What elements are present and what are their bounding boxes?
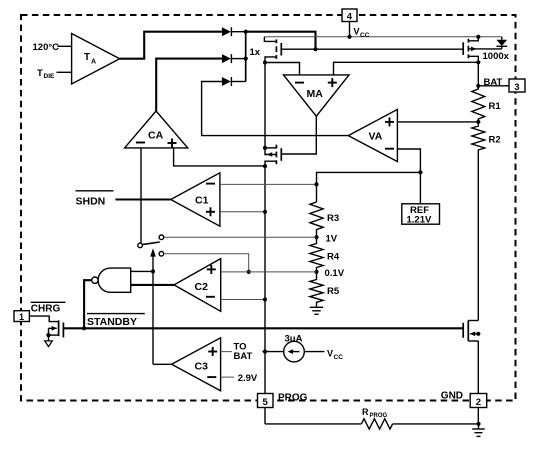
svg-text:PROG: PROG xyxy=(278,392,308,403)
svg-text:T: T xyxy=(37,68,43,79)
node cascode source junction xyxy=(263,146,267,150)
svg-text:2.9V: 2.9V xyxy=(238,373,258,384)
wire NAND upper input xyxy=(131,270,153,272)
node NAND output junction xyxy=(82,326,86,330)
wire TA output to diode D1 xyxy=(120,32,222,59)
node main output drain junction xyxy=(263,60,267,64)
switch select 1V/0.1V xyxy=(138,235,164,256)
op-amp MA xyxy=(284,75,350,116)
label SHDN xyxy=(76,191,114,208)
op-amp VA xyxy=(348,109,397,161)
svg-text:STANDBY: STANDBY xyxy=(87,316,137,328)
wire C2 minus input xyxy=(221,299,265,301)
wire VA plus input to divider xyxy=(397,121,478,123)
transistor output NMOS xyxy=(463,321,478,342)
node 0.1V switch junction xyxy=(247,270,251,274)
resistor R2 xyxy=(472,122,501,152)
wire MA minus input lead xyxy=(265,63,300,75)
wire gate-drive rail to gates xyxy=(246,32,316,50)
wire MA output to cascode gate xyxy=(281,116,316,154)
svg-text:1: 1 xyxy=(19,312,24,322)
amplifier CA xyxy=(125,111,188,148)
pin 5 box xyxy=(258,394,274,408)
resistor R3 xyxy=(310,202,339,237)
svg-text:5: 5 xyxy=(263,397,269,408)
wire C3 minus stub xyxy=(221,376,234,378)
resistor RPROG xyxy=(265,407,479,429)
svg-text:CC: CC xyxy=(334,354,344,361)
minus sign VA xyxy=(385,148,394,150)
wire VA output to diode D3 anode xyxy=(202,82,349,136)
svg-text:C1: C1 xyxy=(195,195,209,207)
svg-text:0.1V: 0.1V xyxy=(325,268,345,279)
amplifier TA xyxy=(72,34,120,85)
svg-text:R3: R3 xyxy=(327,213,339,224)
svg-text:BAT: BAT xyxy=(234,351,253,362)
comparator C3 xyxy=(172,338,221,391)
label VCC at 3uA xyxy=(327,348,343,361)
wire R2 to output NMOS drain xyxy=(477,152,479,321)
svg-text:3: 3 xyxy=(514,82,519,93)
wire C1 plus input xyxy=(220,211,265,213)
svg-text:SHDN: SHDN xyxy=(76,196,106,208)
node C3 3uA junction xyxy=(263,350,267,354)
node VCC pin junction xyxy=(347,35,351,39)
node CHRG source junction xyxy=(46,333,50,337)
transistor 1000x PMOS xyxy=(463,37,502,63)
svg-text:V: V xyxy=(327,348,333,358)
arrow standby control up xyxy=(150,248,156,364)
resistor R5 xyxy=(310,272,340,307)
wire BAT to pin 3 xyxy=(478,85,509,87)
svg-text:V: V xyxy=(354,27,360,37)
node 1000x source junction xyxy=(476,35,480,39)
resistor R1 xyxy=(472,86,501,122)
ground open triangle xyxy=(45,341,53,347)
node 0.1V tap xyxy=(314,270,318,274)
svg-text:R1: R1 xyxy=(489,101,502,112)
diode body diode xyxy=(496,37,507,49)
minus sign C1 xyxy=(206,183,215,185)
pin 3 box xyxy=(509,79,525,93)
resistor R4 xyxy=(310,237,340,272)
wire STANDBY gate line xyxy=(63,327,463,329)
node feedback divider junction xyxy=(476,120,480,124)
transistor CHRG open-drain NMOS xyxy=(29,316,63,341)
svg-text:CHRG: CHRG xyxy=(31,304,61,315)
minus sign C3 xyxy=(207,376,216,378)
label TO BAT xyxy=(232,341,262,362)
svg-text:R4: R4 xyxy=(327,251,340,262)
svg-text:120°C: 120°C xyxy=(33,42,60,53)
node current sense junction xyxy=(263,164,267,168)
wire C1 minus input xyxy=(220,183,317,185)
minus sign MA xyxy=(295,82,304,84)
comparator C2 xyxy=(174,259,221,312)
pin 4 box xyxy=(342,9,357,22)
svg-text:R2: R2 xyxy=(489,135,501,146)
plus sign C1 xyxy=(206,207,215,216)
svg-text:1V: 1V xyxy=(326,234,338,245)
wire CA output to diode D2 xyxy=(156,59,222,111)
IC boundary dashed border xyxy=(21,15,516,401)
wire SHDN to C1 xyxy=(115,198,170,200)
diode D1 xyxy=(222,27,246,36)
svg-text:PROG: PROG xyxy=(370,413,388,419)
wire C3 plus input xyxy=(221,351,265,353)
wire 1V tap to switch contact xyxy=(164,236,317,238)
plus sign MA xyxy=(328,78,337,87)
svg-text:CA: CA xyxy=(148,130,164,142)
svg-text:C2: C2 xyxy=(195,281,209,293)
plus sign C2 xyxy=(207,265,216,274)
svg-text:DIE: DIE xyxy=(44,73,56,80)
node 1V tap xyxy=(314,235,318,239)
wire CA minus input down to switch pole xyxy=(140,148,142,243)
node ground junction xyxy=(476,422,480,426)
node gate rail junction xyxy=(313,47,317,51)
pin 2 box xyxy=(470,394,487,408)
box REF 1.21V xyxy=(402,204,440,226)
node BAT drain junction xyxy=(476,60,480,64)
gate NAND xyxy=(92,268,131,292)
transistor 1x PMOS xyxy=(264,37,281,63)
node C2 minus junction xyxy=(263,297,267,301)
label TDIE input xyxy=(37,68,72,80)
diode D2 xyxy=(222,54,246,63)
wire gate rail between 1x and 1000x xyxy=(281,48,463,50)
label STANDBY xyxy=(87,314,145,329)
svg-text:R5: R5 xyxy=(327,286,340,297)
node C1 minus junction xyxy=(314,182,318,186)
wire BAT node vertical xyxy=(477,62,479,89)
wire MA plus input lead xyxy=(334,62,479,75)
svg-text:R: R xyxy=(362,407,369,417)
svg-text:1x: 1x xyxy=(250,47,261,58)
svg-text:1000x: 1000x xyxy=(483,51,510,62)
svg-text:1.21V: 1.21V xyxy=(407,214,432,225)
svg-text:2: 2 xyxy=(476,397,481,408)
minus sign C2 xyxy=(206,296,215,298)
svg-text:VA: VA xyxy=(369,131,383,143)
label CHRG xyxy=(31,302,66,314)
svg-text:GND: GND xyxy=(441,390,463,401)
svg-text:A: A xyxy=(91,58,96,65)
svg-text:T: T xyxy=(84,52,90,63)
plus sign VA xyxy=(385,117,394,126)
node D2 cathode junction xyxy=(244,57,248,61)
wire diode cathode bus vertical xyxy=(245,32,247,82)
wire CA plus input to sense node xyxy=(174,148,265,166)
wire NAND output to STANDBY line xyxy=(84,280,92,328)
label VCC top xyxy=(354,27,370,40)
node D1 cathode junction xyxy=(244,30,248,34)
svg-text:C3: C3 xyxy=(195,360,209,372)
svg-text:3uA: 3uA xyxy=(285,333,303,344)
diode D3 xyxy=(222,77,246,86)
power rail VCC xyxy=(264,36,501,38)
current source 3uA xyxy=(265,333,325,362)
minus sign CA xyxy=(136,142,145,144)
svg-text:4: 4 xyxy=(347,11,353,22)
wire C2 plus input to 0.1V line xyxy=(221,271,317,273)
plus sign CA xyxy=(168,139,177,148)
wire VA minus input to REF xyxy=(397,149,420,204)
comparator C1 xyxy=(171,173,220,226)
wire to C3 output tip xyxy=(153,363,172,365)
wire REF node to resistor chain xyxy=(317,172,421,202)
node REF junction xyxy=(418,170,422,174)
ground symbol bottom right xyxy=(472,424,485,437)
svg-text:CC: CC xyxy=(360,32,370,39)
node NAND input junction xyxy=(151,269,155,273)
node BAT junction xyxy=(476,84,480,88)
wire NAND lower input to C2 xyxy=(131,284,174,286)
wire switch lower contact to 0.1V tap xyxy=(164,254,249,272)
label 120C input xyxy=(33,42,72,53)
plus sign C3 xyxy=(208,347,217,356)
node output NMOS bulk junction xyxy=(476,332,480,336)
pin 4 lead xyxy=(349,15,351,37)
wire NMOS source to pin 2 xyxy=(477,341,479,424)
svg-text:MA: MA xyxy=(307,88,324,100)
node C1 plus junction xyxy=(263,210,267,214)
transistor cascode PMOS xyxy=(265,145,281,167)
wire PROG bus vertical xyxy=(264,63,266,424)
pin 1 box xyxy=(14,311,29,322)
ground below R5 xyxy=(310,307,323,314)
